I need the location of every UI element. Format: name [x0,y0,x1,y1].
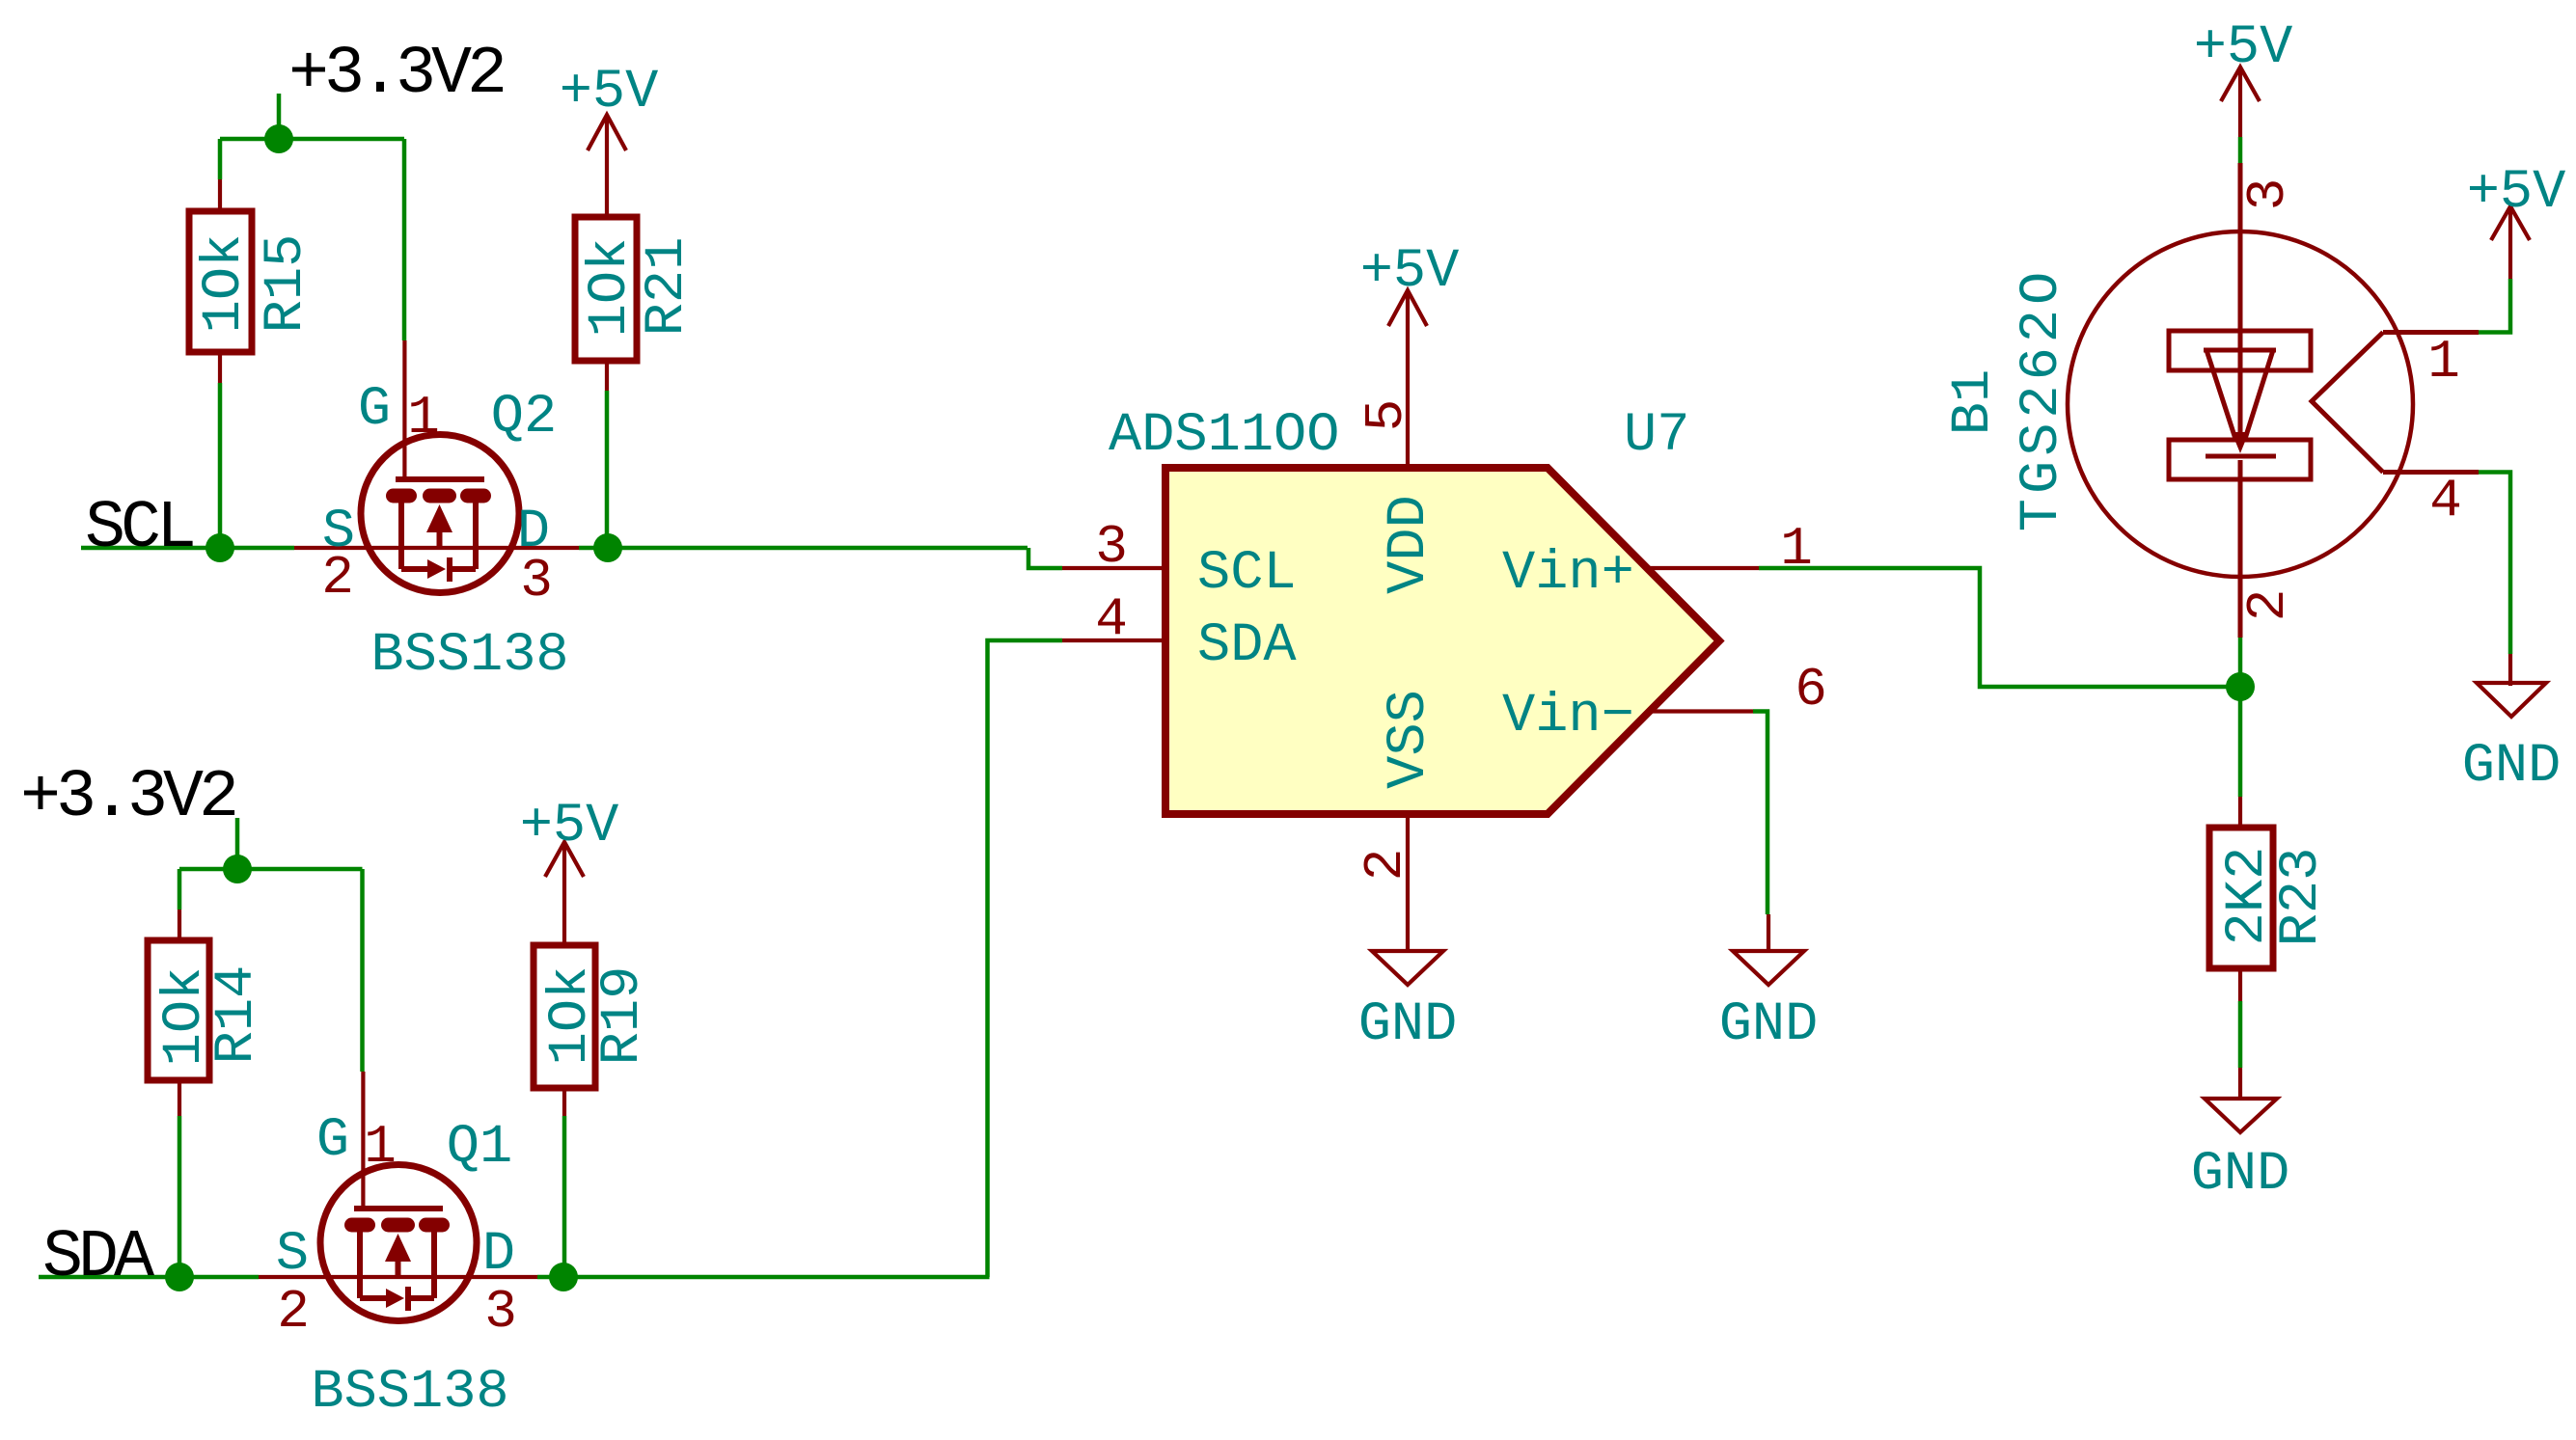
svg-text:SDA: SDA [1197,615,1297,677]
svg-text:TGS262O: TGS262O [2012,267,2073,531]
svg-text:3: 3 [484,1281,517,1343]
svg-text:1: 1 [364,1116,397,1178]
svg-text:+3.3V2: +3.3V2 [20,760,235,836]
svg-text:VDD: VDD [1379,495,1440,594]
svg-text:+5V: +5V [560,62,659,123]
svg-text:GND: GND [1719,994,1819,1056]
svg-text:G: G [358,379,391,441]
svg-text:R23: R23 [2271,848,2333,947]
svg-text:3: 3 [520,550,553,611]
svg-text:R15: R15 [256,234,317,334]
svg-text:+5V: +5V [1360,241,1460,303]
svg-text:+5V: +5V [2194,17,2293,79]
svg-text:1Ok: 1Ok [580,238,642,338]
svg-text:Vin−: Vin− [1502,686,1634,747]
svg-text:1: 1 [407,387,440,448]
svg-text:GND: GND [2191,1144,2290,1206]
svg-text:3: 3 [1095,516,1128,578]
svg-text:6: 6 [1795,659,1827,720]
svg-text:U7: U7 [1624,405,1689,467]
svg-text:D: D [482,1224,515,1286]
svg-text:R14: R14 [206,965,268,1065]
svg-text:SDA: SDA [42,1220,154,1296]
svg-text:GND: GND [1358,994,1458,1056]
svg-text:+5V: +5V [2467,162,2566,224]
svg-text:2: 2 [277,1281,310,1343]
svg-text:Q2: Q2 [491,387,557,448]
svg-text:3: 3 [2237,178,2299,211]
svg-text:ADS11OO: ADS11OO [1109,405,1339,467]
svg-text:4: 4 [1095,588,1128,650]
svg-text:G: G [316,1110,349,1172]
svg-text:SCL: SCL [1197,543,1297,605]
svg-text:2: 2 [2237,589,2299,622]
svg-text:R19: R19 [592,966,654,1066]
svg-text:B1: B1 [1943,369,2005,435]
svg-text:2K2: 2K2 [2217,847,2279,946]
svg-text:+5V: +5V [520,796,619,857]
svg-text:Q1: Q1 [447,1117,512,1179]
svg-text:4: 4 [2429,470,2462,531]
svg-text:BSS138: BSS138 [311,1362,508,1424]
svg-text:1: 1 [2427,331,2460,393]
svg-text:+3.3V2: +3.3V2 [288,37,504,113]
svg-text:GND: GND [2462,736,2562,798]
svg-text:VSS: VSS [1379,690,1440,789]
svg-text:2: 2 [321,547,354,609]
svg-text:Vin+: Vin+ [1502,543,1634,605]
svg-text:5: 5 [1356,399,1417,432]
svg-text:BSS138: BSS138 [370,625,568,687]
svg-text:SCL: SCL [85,491,193,567]
svg-text:R21: R21 [637,237,699,337]
svg-text:1: 1 [1780,518,1813,580]
svg-text:S: S [276,1224,309,1286]
svg-text:2: 2 [1355,849,1416,882]
svg-text:1Ok: 1Ok [194,234,256,334]
